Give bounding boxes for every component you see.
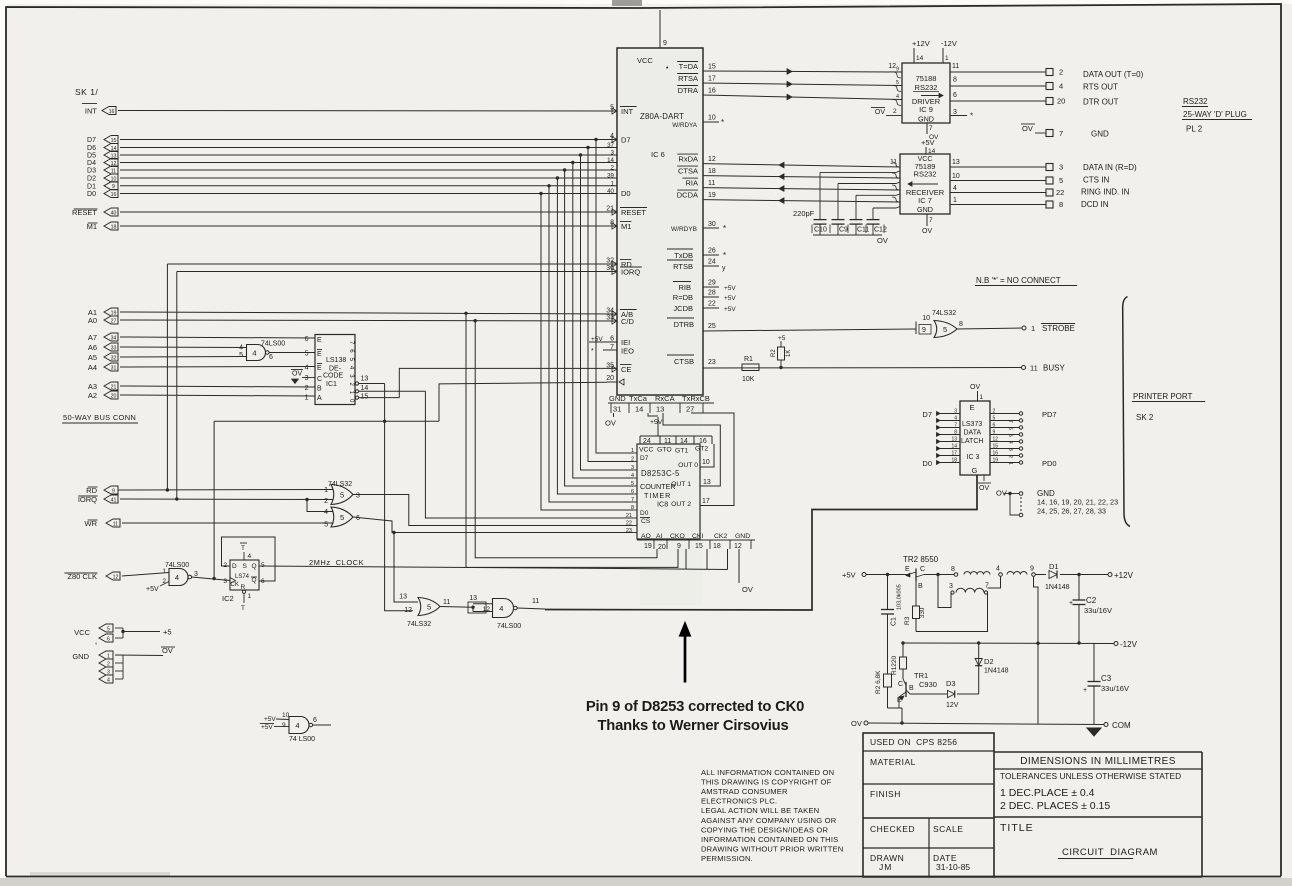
svg-text:B: B: [909, 685, 914, 692]
svg-text:6: 6: [356, 515, 360, 522]
svg-text:36: 36: [606, 265, 614, 272]
svg-text:1: 1: [945, 55, 949, 62]
svg-text:2: 2: [893, 108, 897, 115]
svg-text:5: 5: [340, 513, 344, 522]
svg-text:13: 13: [952, 159, 960, 166]
svg-text:4: 4: [107, 677, 110, 683]
svg-text:3: 3: [953, 109, 957, 116]
svg-text:COM: COM: [1112, 721, 1131, 730]
svg-text:12: 12: [708, 156, 716, 163]
svg-text:C: C: [920, 566, 925, 573]
svg-text:Q: Q: [252, 577, 257, 584]
svg-text:16: 16: [699, 438, 707, 445]
svg-text:4: 4: [239, 345, 243, 352]
svg-text:32: 32: [111, 355, 117, 361]
svg-text:VCC: VCC: [637, 56, 653, 65]
svg-text:R2: R2: [771, 349, 777, 357]
svg-text:4: 4: [295, 721, 299, 730]
svg-text:S: S: [243, 563, 248, 570]
svg-text:AO: AO: [641, 533, 651, 540]
svg-text:3: 3: [305, 375, 309, 382]
svg-text:4: 4: [1059, 82, 1063, 91]
svg-text:C2: C2: [1086, 596, 1097, 605]
svg-text:74LS32: 74LS32: [328, 481, 352, 488]
svg-text:12V: 12V: [946, 702, 959, 709]
svg-text:RTSA: RTSA: [678, 74, 698, 83]
svg-text:+5V: +5V: [261, 724, 273, 731]
svg-text:4: 4: [305, 365, 309, 372]
svg-text:R3: R3: [904, 616, 911, 625]
svg-text:GND: GND: [72, 652, 89, 661]
svg-text:MATERIAL: MATERIAL: [870, 757, 916, 767]
svg-text:DATA: DATA: [964, 430, 982, 437]
svg-text:+: +: [1069, 600, 1073, 607]
svg-text:GND: GND: [1091, 130, 1109, 139]
svg-text:74LS00: 74LS00: [165, 562, 189, 569]
svg-text:IORQ: IORQ: [621, 268, 640, 277]
svg-text:OV: OV: [996, 489, 1007, 498]
svg-text:GT2: GT2: [695, 446, 708, 453]
svg-text:3: 3: [223, 578, 227, 585]
svg-text:IC8: IC8: [657, 500, 668, 509]
svg-text:BUSY: BUSY: [1043, 364, 1065, 373]
svg-text:1: 1: [162, 568, 166, 575]
svg-text:PD0: PD0: [1042, 459, 1057, 468]
svg-text:E: E: [317, 337, 322, 344]
svg-text:9: 9: [282, 722, 286, 729]
svg-text:THIS DRAWING IS COPYRIGHT OF: THIS DRAWING IS COPYRIGHT OF: [701, 778, 832, 787]
svg-text:R1220: R1220: [891, 655, 898, 675]
svg-text:N.B '*' = NO CONNECT: N.B '*' = NO CONNECT: [976, 276, 1061, 285]
svg-text:20: 20: [111, 393, 117, 399]
svg-text:OV: OV: [1022, 124, 1033, 133]
svg-text:VCC: VCC: [74, 628, 90, 637]
svg-text:IC1: IC1: [326, 381, 337, 388]
svg-text:12: 12: [734, 543, 742, 550]
svg-text:11: 11: [113, 521, 118, 527]
svg-text:OV: OV: [922, 228, 932, 235]
svg-text:D3: D3: [87, 168, 96, 175]
svg-text:D7: D7: [87, 137, 96, 144]
svg-text:Q: Q: [252, 563, 257, 570]
svg-text:INFORMATION CONTAINED ON THIS: INFORMATION CONTAINED ON THIS: [701, 835, 838, 844]
svg-text:1N4148: 1N4148: [984, 668, 1009, 675]
svg-text:USED ON CPS 8256: USED ON CPS 8256: [870, 737, 957, 747]
svg-text:11: 11: [708, 180, 715, 187]
svg-text:6: 6: [269, 354, 273, 361]
svg-text:18: 18: [111, 224, 117, 230]
svg-text:11: 11: [443, 599, 450, 606]
svg-text:11: 11: [532, 598, 539, 605]
svg-text:*: *: [723, 224, 726, 233]
svg-text:PRINTER PORT: PRINTER PORT: [1133, 392, 1193, 401]
svg-text:+5V: +5V: [724, 295, 736, 302]
svg-text:DCDA: DCDA: [677, 191, 698, 200]
svg-text:74LS00: 74LS00: [497, 623, 521, 630]
svg-text:D0: D0: [621, 189, 631, 198]
svg-text:TxDB: TxDB: [674, 251, 693, 260]
svg-text:FINISH: FINISH: [870, 789, 901, 799]
svg-text:75188: 75188: [916, 74, 937, 83]
svg-text:C: C: [317, 376, 322, 383]
svg-text:AMSTRAD CONSUMER: AMSTRAD CONSUMER: [701, 787, 788, 796]
svg-text:1: 1: [953, 197, 957, 204]
svg-text:12: 12: [404, 607, 412, 614]
svg-text:D2: D2: [984, 657, 994, 666]
svg-text:14: 14: [916, 55, 924, 62]
svg-text:6: 6: [993, 423, 996, 429]
svg-text:JM: JM: [879, 862, 892, 872]
svg-text:CHECKED: CHECKED: [870, 824, 915, 834]
svg-text:7: 7: [954, 423, 957, 429]
svg-text:RS232: RS232: [1183, 97, 1208, 106]
svg-text:8: 8: [951, 566, 955, 573]
svg-text:14: 14: [635, 405, 643, 414]
svg-text:3: 3: [954, 409, 957, 415]
svg-text:32: 32: [606, 258, 614, 265]
svg-text:33: 33: [606, 315, 614, 322]
svg-text:C1: C1: [891, 617, 898, 626]
svg-text:5: 5: [993, 416, 996, 422]
svg-text:1: 1: [305, 395, 309, 402]
svg-text:1: 1: [324, 487, 328, 494]
svg-text:12: 12: [888, 63, 896, 70]
svg-text:5: 5: [305, 351, 309, 358]
svg-text:4: 4: [996, 566, 1000, 573]
svg-text:CS: CS: [641, 518, 651, 525]
svg-text:D3: D3: [946, 679, 956, 688]
svg-text:7: 7: [1007, 420, 1013, 423]
svg-text:C/D: C/D: [621, 317, 635, 326]
svg-text:14: 14: [928, 148, 936, 155]
svg-text:VCC: VCC: [639, 447, 653, 454]
svg-text:SK 2: SK 2: [1136, 413, 1154, 422]
svg-text:5: 5: [261, 562, 265, 569]
svg-text:ALL INFORMATION CONTAINED ON: ALL INFORMATION CONTAINED ON: [701, 768, 834, 777]
svg-text:10: 10: [282, 712, 290, 719]
svg-text:18: 18: [708, 168, 716, 175]
svg-text:1N4148: 1N4148: [1045, 584, 1070, 591]
svg-text:+5V: +5V: [146, 586, 159, 593]
svg-text:E: E: [897, 697, 902, 704]
svg-text:A3: A3: [88, 382, 97, 391]
svg-text:6: 6: [313, 717, 317, 724]
svg-text:33u/16V: 33u/16V: [1101, 684, 1129, 693]
svg-text:E: E: [970, 403, 975, 412]
svg-text:TOLERANCES UNLESS OTHERWISE ST: TOLERANCES UNLESS OTHERWISE STATED: [1000, 771, 1181, 781]
svg-text:10: 10: [702, 459, 710, 466]
svg-text:A4: A4: [88, 363, 97, 372]
svg-text:TxCa: TxCa: [629, 394, 648, 403]
svg-text:23: 23: [708, 359, 716, 366]
svg-text:34: 34: [111, 335, 117, 341]
svg-text:A6: A6: [88, 343, 97, 352]
svg-text:10K: 10K: [742, 376, 755, 383]
svg-text:5: 5: [427, 603, 431, 612]
svg-text:13: 13: [469, 595, 477, 602]
svg-text:7: 7: [929, 125, 933, 132]
svg-text:+5V: +5V: [842, 571, 856, 580]
svg-text:6: 6: [261, 578, 265, 585]
svg-text:5: 5: [943, 325, 947, 334]
svg-text:Z80A-DART: Z80A-DART: [640, 112, 684, 121]
svg-text:TxRxCB: TxRxCB: [682, 394, 710, 403]
svg-text:220pF: 220pF: [793, 209, 815, 218]
svg-text:17: 17: [708, 76, 716, 83]
svg-text:50-WAY BUS CONN: 50-WAY BUS CONN: [63, 413, 136, 422]
svg-text:4: 4: [175, 573, 179, 582]
svg-text:C930: C930: [919, 680, 937, 689]
svg-text:T: T: [241, 605, 245, 612]
svg-text:27: 27: [111, 318, 117, 324]
svg-text:9: 9: [993, 430, 996, 436]
svg-text:29: 29: [708, 280, 716, 287]
svg-text:17: 17: [951, 451, 957, 457]
svg-text:2: 2: [1059, 68, 1063, 77]
svg-text:25-WAY 'D' PLUG: 25-WAY 'D' PLUG: [1183, 110, 1247, 119]
svg-text:2: 2: [223, 562, 227, 569]
svg-text:PERMISSION.: PERMISSION.: [701, 854, 753, 863]
svg-text:+5V: +5V: [650, 419, 663, 426]
svg-text:11: 11: [1030, 364, 1038, 373]
svg-text:*: *: [970, 112, 973, 121]
svg-text:D4: D4: [87, 160, 96, 167]
svg-text:R2 6,8K: R2 6,8K: [875, 670, 882, 694]
svg-text:6: 6: [953, 92, 957, 99]
svg-text:4: 4: [248, 553, 252, 560]
svg-text:8: 8: [954, 430, 957, 436]
svg-text:CTSB: CTSB: [674, 357, 694, 366]
svg-text:*: *: [721, 118, 724, 127]
svg-text:30: 30: [708, 221, 716, 228]
svg-text:5: 5: [896, 80, 899, 86]
svg-text:COPYING THE DESIGN/IDEAS OR: COPYING THE DESIGN/IDEAS OR: [701, 825, 829, 834]
svg-text:OUT 0: OUT 0: [678, 462, 698, 469]
svg-text:20: 20: [606, 375, 614, 382]
svg-text:OV: OV: [292, 371, 302, 378]
svg-text:6: 6: [107, 636, 110, 642]
svg-text:DTRB: DTRB: [674, 320, 694, 329]
svg-text:40: 40: [111, 210, 117, 216]
svg-text:20: 20: [658, 544, 666, 551]
svg-text:+5: +5: [163, 628, 172, 637]
svg-text:17: 17: [702, 498, 710, 505]
svg-text:SK 1/: SK 1/: [75, 87, 98, 97]
svg-text:13: 13: [703, 479, 711, 486]
svg-text:10: 10: [708, 115, 716, 122]
svg-text:9: 9: [677, 543, 681, 550]
svg-text:DRAWING WITHOUT PRIOR WRITTEN: DRAWING WITHOUT PRIOR WRITTEN: [701, 844, 843, 853]
svg-text:21: 21: [606, 206, 614, 213]
svg-text:7: 7: [929, 217, 933, 224]
svg-text:DATA IN (R=D): DATA IN (R=D): [1083, 163, 1137, 172]
svg-text:10: 10: [952, 173, 960, 180]
svg-text:9: 9: [1030, 566, 1034, 573]
svg-text:OV: OV: [877, 236, 888, 245]
svg-text:9: 9: [112, 488, 115, 494]
svg-text:CTS IN: CTS IN: [1083, 176, 1109, 185]
svg-text:OUT 2: OUT 2: [671, 501, 691, 508]
svg-text:INT: INT: [85, 107, 98, 116]
svg-text:20: 20: [1057, 97, 1065, 106]
svg-text:Thanks to Werner Cirsovius: Thanks to Werner Cirsovius: [597, 718, 788, 734]
svg-text:T=DA: T=DA: [679, 62, 698, 71]
svg-text:RxDA: RxDA: [678, 155, 698, 164]
svg-text:RTSB: RTSB: [673, 262, 693, 271]
svg-text:103,0k005: 103,0k005: [897, 584, 903, 610]
svg-text:CTSA: CTSA: [678, 167, 698, 176]
svg-text:21: 21: [111, 384, 117, 390]
svg-text:IEO: IEO: [621, 347, 634, 356]
svg-text:*: *: [591, 348, 594, 355]
svg-text:74 LS00: 74 LS00: [289, 736, 315, 743]
svg-text:27: 27: [686, 405, 694, 414]
svg-text:3: 3: [356, 493, 360, 500]
svg-text:A0: A0: [88, 316, 97, 325]
svg-text:4: 4: [499, 604, 503, 613]
svg-text:19: 19: [708, 192, 716, 199]
svg-text:D0: D0: [87, 191, 96, 198]
svg-text:6: 6: [1007, 427, 1013, 430]
svg-text:DATA OUT (T=0): DATA OUT (T=0): [1083, 70, 1144, 79]
svg-text:DE-: DE-: [329, 366, 342, 373]
svg-text:B: B: [317, 386, 322, 393]
svg-text:9: 9: [896, 67, 899, 73]
svg-text:RS232: RS232: [915, 83, 938, 92]
svg-text:OV: OV: [605, 419, 616, 428]
svg-text:8: 8: [1059, 200, 1063, 209]
svg-text:C: C: [898, 681, 903, 688]
svg-text:74LS00: 74LS00: [261, 341, 285, 348]
svg-text:W/RDYA: W/RDYA: [672, 122, 698, 129]
svg-text:CKO: CKO: [670, 533, 685, 540]
svg-text:AI: AI: [656, 533, 663, 540]
svg-text:8: 8: [959, 321, 963, 328]
svg-text:24: 24: [643, 438, 651, 445]
svg-text:16: 16: [708, 88, 716, 95]
svg-text:GT1: GT1: [675, 448, 688, 455]
svg-text:D1: D1: [1049, 562, 1059, 571]
svg-text:11: 11: [664, 438, 671, 445]
svg-text:+: +: [1083, 687, 1087, 694]
svg-text:AGAINST ANY COMPANY USING OR: AGAINST ANY COMPANY USING OR: [701, 816, 837, 825]
svg-text:33u/16V: 33u/16V: [1084, 606, 1112, 615]
svg-text:LS138: LS138: [326, 357, 346, 364]
svg-text:31: 31: [111, 365, 117, 371]
svg-text:R1: R1: [744, 356, 753, 363]
svg-text:1K: 1K: [786, 350, 792, 357]
svg-text:A7: A7: [88, 333, 97, 342]
svg-text:D7: D7: [640, 455, 649, 462]
svg-text:13: 13: [656, 405, 664, 414]
svg-text:15: 15: [361, 394, 369, 401]
svg-text:A2: A2: [88, 391, 97, 400]
svg-text:5: 5: [1007, 434, 1013, 437]
svg-text:IC2: IC2: [222, 594, 234, 603]
svg-text:DIMENSIONS IN MILLIMETRES: DIMENSIONS IN MILLIMETRES: [1020, 756, 1176, 767]
svg-text:-12V: -12V: [941, 39, 957, 48]
svg-text:JCDB: JCDB: [673, 304, 693, 313]
svg-text:25: 25: [708, 323, 716, 330]
svg-text:23: 23: [626, 528, 632, 534]
svg-text:DTRA: DTRA: [678, 86, 698, 95]
svg-text:3: 3: [1059, 163, 1063, 172]
svg-text:D7: D7: [621, 136, 631, 145]
svg-text:RTS OUT: RTS OUT: [1083, 83, 1118, 92]
svg-text:RS232: RS232: [914, 170, 937, 179]
svg-text:2: 2: [324, 498, 328, 505]
svg-text:26: 26: [708, 248, 716, 255]
svg-text:12: 12: [113, 574, 119, 580]
svg-text:13: 13: [399, 594, 407, 601]
svg-text:SCALE: SCALE: [933, 824, 963, 834]
svg-text:CODE: CODE: [323, 373, 344, 380]
svg-text:+5: +5: [778, 335, 786, 342]
svg-text:D5: D5: [87, 153, 96, 160]
svg-text:GND: GND: [918, 115, 934, 124]
svg-text:2 DEC. PLACES ± 0.15: 2 DEC. PLACES ± 0.15: [1000, 800, 1110, 812]
svg-text:74LS32: 74LS32: [407, 621, 431, 628]
svg-text:12: 12: [483, 606, 491, 613]
svg-text:5: 5: [107, 626, 110, 632]
svg-text:IC 3: IC 3: [967, 454, 980, 461]
svg-text:TR1: TR1: [914, 671, 928, 680]
svg-text:1: 1: [1031, 324, 1035, 333]
svg-text:CIRCUIT DIAGRAM: CIRCUIT DIAGRAM: [1062, 847, 1158, 858]
svg-text:13: 13: [361, 376, 369, 383]
svg-text:GND: GND: [917, 205, 933, 214]
svg-text:31-10-85: 31-10-85: [936, 862, 970, 872]
svg-text:LS74: LS74: [235, 574, 250, 580]
svg-text:ELECTRONICS PLC.: ELECTRONICS PLC.: [701, 797, 777, 806]
svg-text:D8253C-5: D8253C-5: [641, 469, 680, 478]
svg-text:2: 2: [305, 385, 309, 392]
svg-text:*: *: [723, 251, 726, 260]
svg-text:RIA: RIA: [685, 179, 698, 188]
svg-text:RxCA: RxCA: [655, 394, 675, 403]
svg-text:4: 4: [954, 416, 957, 422]
svg-text:12: 12: [993, 437, 999, 443]
svg-text:2MHz CLOCK: 2MHz CLOCK: [309, 558, 364, 567]
svg-text:11: 11: [952, 63, 959, 70]
svg-text:+12V: +12V: [912, 39, 930, 48]
svg-text:4: 4: [1007, 441, 1013, 444]
svg-text:STROBE: STROBE: [1042, 324, 1075, 333]
svg-text:OV: OV: [970, 384, 980, 391]
svg-text:33: 33: [111, 345, 117, 351]
svg-text:LEGAL ACTION WILL BE TAKEN: LEGAL ACTION WILL BE TAKEN: [701, 806, 819, 815]
svg-text:21: 21: [626, 513, 632, 519]
svg-text:1: 1: [248, 593, 252, 600]
svg-text:RING IND. IN: RING IND. IN: [1081, 188, 1130, 197]
svg-text:T: T: [241, 545, 245, 552]
svg-text:TR2 8550: TR2 8550: [903, 555, 939, 564]
svg-text:C12: C12: [874, 227, 887, 234]
svg-text:16: 16: [993, 451, 999, 457]
svg-text:74LS32: 74LS32: [932, 310, 956, 317]
svg-text:LS373: LS373: [962, 421, 982, 428]
svg-text:3: 3: [949, 583, 953, 590]
svg-text:LATCH: LATCH: [961, 438, 983, 445]
svg-text:OV: OV: [875, 109, 885, 116]
svg-text:6: 6: [305, 336, 309, 343]
svg-text:CE: CE: [621, 365, 631, 374]
svg-text:6: 6: [610, 336, 614, 343]
svg-text:14: 14: [951, 444, 957, 450]
svg-text:1 DEC.PLACE ± 0.4: 1 DEC.PLACE ± 0.4: [1000, 787, 1095, 799]
svg-text:B: B: [918, 583, 923, 590]
svg-text:4: 4: [953, 185, 957, 192]
